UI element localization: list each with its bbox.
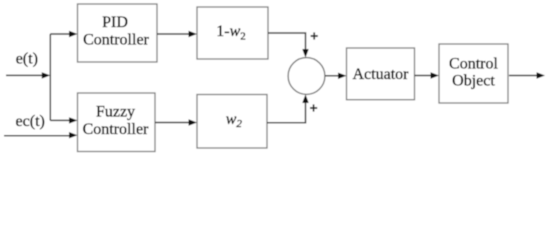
svg-text:Actuator: Actuator xyxy=(353,66,410,83)
svg-text:Fuzzy: Fuzzy xyxy=(96,104,135,121)
svg-text:Object: Object xyxy=(452,73,495,90)
svg-text:Controller: Controller xyxy=(83,32,149,49)
svg-text:e(t): e(t) xyxy=(16,51,38,68)
svg-text:PID: PID xyxy=(102,14,128,31)
svg-text:Control: Control xyxy=(449,56,498,73)
svg-text:ec(t): ec(t) xyxy=(16,113,45,130)
svg-text:Controller: Controller xyxy=(83,121,149,138)
